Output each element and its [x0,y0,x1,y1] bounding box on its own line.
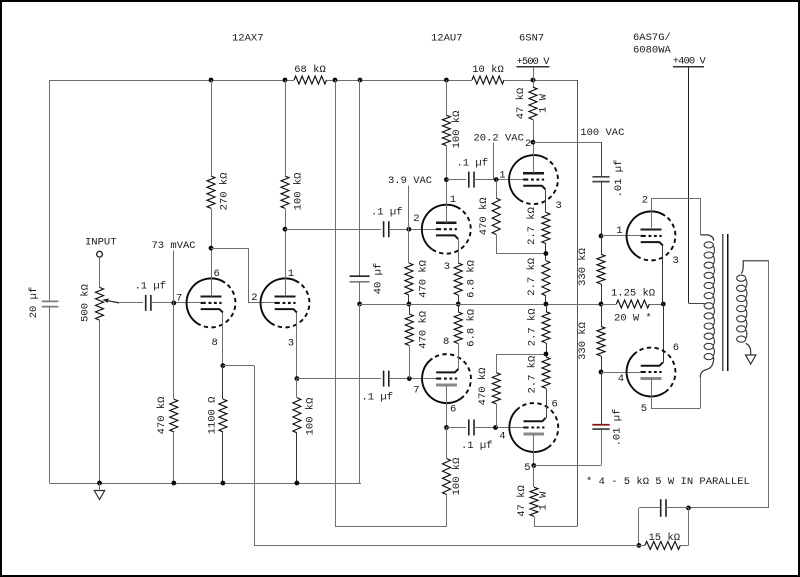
resistor 470 kΩ V2a grid leak [405,263,413,295]
wire 1.25k left lead [601,304,616,306]
label .01 µf upper [613,160,625,198]
node dot cathode divider V3a [544,251,549,256]
label 100 kΩ V2b [451,458,463,496]
wire 470k V3b top [496,354,546,373]
resistor 100 kΩ V2a top lead [446,80,448,115]
resistor 270 kΩ top lead [211,80,213,176]
wire plate V2b to 6SN7 cap [447,427,466,429]
wire mid rail [360,304,602,306]
capacitor .01 µf upper [592,177,609,182]
label 470 kΩ V1a [156,397,168,435]
wire plate V3b [533,434,535,466]
resistor 470 kΩ V3a grid leak [492,198,500,234]
svg-text:15 kΩ: 15 kΩ [649,532,681,544]
label 15 kΩ [649,532,681,544]
node dot grid V2b [407,376,412,381]
wire .01 cap to grid node 6AS7 upper [601,182,603,236]
wire cathode V1a to feedback [223,366,255,546]
label 6.8 kΩ V2b [465,309,477,347]
wire ground bus [50,483,361,485]
svg-text:.1 µf: .1 µf [457,157,489,169]
wire 470k V3b bottom lead [496,404,498,428]
pointer 73 mVAC [173,251,175,303]
pin 6 label V1a [214,268,220,280]
label 1 W upper [537,93,549,113]
resistor 100 kΩ V1b top lead [285,80,287,176]
svg-text:20.2 VAC: 20.2 VAC [474,132,524,144]
wire 1.25k right lead [649,304,663,306]
svg-text:73 mVAC: 73 mVAC [152,240,196,252]
resistor 470 kΩ V2b grid leak [405,314,413,346]
label 6SN7 [519,33,544,45]
svg-text:470 kΩ: 470 kΩ [417,260,429,298]
label 47 kΩ upper [515,88,527,120]
wire cap to grid V3a [474,179,523,181]
pin 3 label V2a [444,261,450,273]
node dot plate V2b [444,425,449,430]
node dot feedback cap right [686,506,691,511]
svg-text:8: 8 [443,336,449,348]
svg-text:4: 4 [499,431,505,443]
label 2.7 kΩ third [526,308,538,346]
node dot plate V3a [531,140,536,145]
pin 1 label V4a [616,225,622,237]
node dot feedback left [637,543,642,548]
node dot 2.7k rail [544,302,549,307]
label 100 kΩ V2a [451,111,463,149]
node dot 470k V2a rail [407,302,412,307]
label 20 µf [28,287,40,319]
resistor 47 kΩ 1W top lead [533,80,535,87]
resistor 470 kΩ V3b grid leak [492,373,500,404]
pointer 20.2 VAC [493,143,495,180]
wire 2.7k to junction [545,244,547,261]
svg-text:.01 µf: .01 µf [612,409,624,447]
svg-text:7: 7 [413,385,419,397]
capacitor .1 µf 6SN7 lower [469,420,474,436]
svg-text:2.7 kΩ: 2.7 kΩ [526,308,538,346]
svg-text:3.9 VAC: 3.9 VAC [388,175,432,187]
wire 40uf rail to bus [359,304,361,483]
resistor 330 kΩ upper [597,254,605,284]
svg-text:.1 µf: .1 µf [371,206,403,218]
resistor 6.8 kΩ V2b [454,312,462,344]
svg-text:6: 6 [450,404,456,416]
wire 6.8k V2b top lead [458,304,460,312]
label .1 µf input [135,281,167,293]
wire plate V4a to transformer [651,198,701,235]
wire grid V4a [601,235,641,237]
label .1 µf 6SN7 lower [461,440,493,452]
svg-text:5: 5 [641,403,647,415]
svg-text:2.7 kΩ: 2.7 kΩ [526,258,538,296]
pin 3 label V1b [288,338,294,350]
label 40 µf [372,263,384,295]
wire plate V1b [285,208,287,296]
capacitor .1 µf 6SN7 upper [469,172,474,188]
svg-text:20 µf: 20 µf [28,287,40,319]
wire cathode V1a [222,313,224,366]
label 20.2 VAC [474,132,524,144]
wire +500V feed right vertical [577,80,579,527]
svg-text:2.7 kΩ: 2.7 kΩ [526,207,538,245]
svg-text:6: 6 [552,399,558,411]
svg-text:3: 3 [444,261,450,273]
pin 1 label V2a [450,194,456,206]
wire x335 B+ vertical [335,80,337,527]
label 12AU7 [431,33,463,45]
resistor 470 kΩ grid V1a [170,399,178,432]
wire wiper to cap [119,302,143,304]
pin 3 label V3a [556,200,562,212]
resistor 100 kΩ cathode V1b [293,398,301,433]
svg-text:2: 2 [525,138,531,150]
label 100 kΩ cathode V1b [304,398,316,436]
resistor 1.25 kΩ 20 W [616,300,649,308]
resistor 330 kΩ lower [597,326,605,356]
label .1 µf 6SN7 upper [457,157,489,169]
svg-text:.1 µf: .1 µf [362,392,394,404]
capacitor .01 µf lower [592,425,609,429]
wire 470k V3a bottom [496,235,546,254]
label 6AS7G/6080WA [633,32,672,56]
pin 4 label V4b [618,373,624,385]
wire cathode V3a [545,189,547,212]
svg-text:8: 8 [212,337,218,349]
label INPUT [85,237,117,249]
wire left rail lower [49,307,51,483]
svg-text:100 kΩ: 100 kΩ [292,173,304,211]
label 47 kΩ lower [516,485,528,517]
svg-text:12AX7: 12AX7 [232,33,264,45]
transformer primary winding [700,235,714,378]
wire plate V1b to coupling cap [285,229,381,231]
wire grid V4b [601,372,641,374]
resistor 15 kΩ [645,541,680,549]
svg-text:12AU7: 12AU7 [431,33,463,45]
wire 470k V2a bottom lead [408,295,410,304]
node dot cathode divider V3b [544,352,549,357]
wire plate V3a to .01 cap [533,142,602,177]
node dot B+ 40uf [358,78,363,83]
wire left rail upper [49,80,51,301]
svg-text:* 4 - 5 kΩ 5 W IN PARALLEL: * 4 - 5 kΩ 5 W IN PARALLEL [586,476,750,488]
svg-text:4: 4 [618,373,624,385]
svg-text:7: 7 [176,293,182,305]
node dot grid V1a [171,301,176,306]
label .1 µf upper [371,206,403,218]
pin 5 label V3b [524,462,530,474]
wire 6.8k V2a bottom lead [458,295,460,304]
label 100 VAC [580,127,624,139]
wire 470k V2b bottom lead [409,346,411,379]
resistor 100 kΩ cathode V1b top lead [296,379,298,398]
wire cathode V2a [458,239,460,263]
wire 100k V2b return [335,495,447,527]
pin 6 label V2b [450,404,456,416]
svg-text:.1 µf: .1 µf [135,281,167,293]
wire 1100 ohm to bus [222,432,224,483]
label 330 kΩ upper [577,248,589,286]
wire cathode bus to V4b [663,304,665,362]
svg-text:2.7 kΩ: 2.7 kΩ [526,356,538,394]
svg-text:500 kΩ: 500 kΩ [79,284,91,322]
label 270 kΩ [218,173,230,211]
label 1.25 kΩ [611,287,655,299]
wire plate V4b to transformer [651,378,701,409]
wire 15k right lead [680,545,688,547]
label .01 µf lower [612,409,624,447]
svg-text:47 kΩ: 47 kΩ [515,88,527,120]
svg-text:2: 2 [251,292,257,304]
resistor 1100 Ω [219,399,227,432]
svg-text:270 kΩ: 270 kΩ [218,173,230,211]
pin 2 label V3a [525,138,531,150]
wire cap to grid pin7 [151,302,201,304]
svg-text:100 VAC: 100 VAC [580,127,624,139]
svg-text:3: 3 [288,338,294,350]
label 6.8 kΩ V2a [465,260,477,298]
capacitor .1 µf lower coupling [384,371,389,387]
svg-text:1: 1 [499,169,505,181]
wire plate V3b to 47k [533,466,535,488]
wire pot bottom to bus [99,320,101,483]
node dot 6.8k V2a rail [456,302,461,307]
pin 2 label V1b [251,292,257,304]
node dot bus 100k [295,481,300,486]
label 470 kΩ V2a [417,260,429,298]
node dot B+ x335 [333,78,338,83]
wire cap to grid V2a [389,229,436,231]
node dot grid feed V4a [599,234,604,239]
node dot bus 1100 [221,481,226,486]
wire cap to grid V2b [389,378,436,380]
node dot B+ 100k 12AU7 [444,78,449,83]
label 73 mVAC [152,240,196,252]
pin 7 label V2b [413,385,419,397]
label 330 kΩ lower [577,322,589,360]
label 2.7 kΩ second [526,258,538,296]
svg-text:470 kΩ: 470 kΩ [478,197,490,235]
pin 1 label V3a [499,169,505,181]
svg-text:1: 1 [616,225,622,237]
wire 470k to bus [173,432,175,483]
svg-text:470 kΩ: 470 kΩ [156,397,168,435]
wire 15k left lead [639,545,645,547]
svg-text:2: 2 [642,195,648,207]
resistor 47 kΩ 1W upper [529,87,537,119]
node dot plate V3b [531,463,536,468]
svg-text:3: 3 [556,200,562,212]
label 3.9 VAC [388,175,432,187]
wire plate V2b [446,385,448,428]
supply +500 V [517,56,551,80]
resistor 10 kΩ [472,76,504,84]
node dot plate V1b [283,227,288,232]
transformer secondary winding [737,261,769,355]
supply +400 V [673,56,707,68]
wire cathode V1b to coupling cap [297,378,381,380]
wire 40uf bottom to rail [359,282,361,304]
input terminal [97,251,103,257]
wire feedback resistor right leg [688,508,690,546]
svg-text:2: 2 [413,213,419,225]
svg-text:INPUT: INPUT [85,237,117,249]
pointer 3.9 VAC [408,186,410,230]
triode V1a 12AX7 section 1 [187,278,236,327]
triode V4b 6AS7 section 2 [627,348,676,397]
wire cathode V3b [546,388,548,418]
triode V2a 12AU7 section 1 [422,205,471,254]
resistor 6.8 kΩ V2a [454,263,462,295]
label 2.7 kΩ fourth [526,356,538,394]
svg-text:6: 6 [214,268,220,280]
wire B+ top rail left segment [50,80,294,82]
wire feedback cap left [639,508,661,546]
wire B+ top rail middle segment [327,80,473,82]
pin 8 label V2b [443,336,449,348]
label 2.7 kΩ first [526,207,538,245]
wire plate V1a [211,208,213,296]
label 12AX7 [232,33,264,45]
resistor 470 kΩ grid V1a top lead [173,303,175,399]
resistor 68 kΩ [294,76,327,84]
triode V1b 12AX7 section 2 [261,278,310,327]
svg-text:470 kΩ: 470 kΩ [477,367,489,405]
resistor 100 kΩ V1b plate [281,176,289,208]
svg-text:100 kΩ: 100 kΩ [304,398,316,436]
label 470 kΩ V3b [477,367,489,405]
potentiometer 500 kΩ [96,287,104,320]
node dot B+ 270k [209,78,214,83]
svg-text:.01 µf: .01 µf [613,160,625,198]
wire cathode 100k to bus [296,433,298,483]
node dot B+ 100k [283,78,288,83]
svg-text:1: 1 [288,268,294,280]
pin 6 label V3b [552,399,558,411]
node dot 330k junction [599,302,604,307]
svg-text:1 W: 1 W [537,93,549,113]
label 1100 Ω [206,397,218,435]
wire cathode V1b [296,313,298,379]
capacitor .1 µf upper coupling [384,221,389,237]
resistor 2.7 kΩ second [542,261,550,296]
svg-text:330 kΩ: 330 kΩ [577,248,589,286]
wire 2.7k third top [546,304,548,312]
pin 5 label V4b [641,403,647,415]
node dot grid V2a [407,227,412,232]
triode V4a 6AS7 section 1 [627,211,676,260]
triode V3a 6SN7 section 1 [509,155,558,204]
svg-text:40 µf: 40 µf [372,263,384,295]
svg-text:6.8 kΩ: 6.8 kΩ [465,260,477,298]
svg-text:1100 Ω: 1100 Ω [206,397,218,435]
wire feedback to cap node [688,507,769,509]
svg-text:470 kΩ: 470 kΩ [417,311,429,349]
wire 2.7k third bottom [546,343,548,357]
svg-text:100 kΩ: 100 kΩ [451,458,463,496]
pin 7 label V1a [176,293,182,305]
wire cap to grid V3b [474,427,523,429]
resistor 1100 Ω top lead [222,366,224,400]
resistor 100 kΩ V2b plate load [443,459,451,495]
node dot grid V3b [493,425,498,430]
node dot bus 470k [171,481,176,486]
node dot +500V junction [531,78,536,83]
node dot grid feed V4b [599,370,604,375]
pin 3 label V4a [673,255,679,267]
svg-text:47 kΩ: 47 kΩ [516,485,528,517]
wire plate V2b to 100k [446,428,448,459]
capacitor 40 µf [350,276,370,282]
resistor 100 kΩ V2a [442,115,450,145]
label 100 kΩ V1b [292,173,304,211]
capacitor feedback [661,499,666,517]
transformer core [723,234,728,371]
label 68 kΩ [294,64,326,76]
resistor 270 kΩ [207,176,215,208]
resistor 47 kΩ 1W lower [530,487,538,516]
pin 8 label V1a [212,337,218,349]
wire plate V2a [446,146,448,223]
label 1 W lower [537,491,549,511]
svg-text:20 W *: 20 W * [614,312,652,324]
label 500 kΩ [79,284,91,322]
svg-text:100 kΩ: 100 kΩ [451,111,463,149]
svg-text:6.8 kΩ: 6.8 kΩ [465,309,477,347]
label .1 µf lower [362,392,394,404]
pin 6 label V4b [673,342,679,354]
wire plate V2a to 6SN7 cap [446,179,466,181]
resistor 2.7 kΩ third [542,312,550,343]
svg-text:10 kΩ: 10 kΩ [472,64,504,76]
pin 2 label V2a [413,213,419,225]
wire input to pot [99,257,101,287]
label 10 kΩ [472,64,504,76]
wire plate V1a to grid V1b [211,248,275,303]
wire grid V4b node to cap [601,372,603,425]
triode V3b 6SN7 section 2 [509,403,558,452]
pot wiper arrow [102,298,119,303]
svg-text:3: 3 [673,255,679,267]
svg-text:1.25 kΩ: 1.25 kΩ [611,287,655,299]
pin 1 label V1b [288,268,294,280]
triode V2b 12AU7 section 2 [422,354,471,403]
node dot 40uf rail [357,302,362,307]
node dot cathode bus 6AS7 [661,302,666,307]
wire 470k V2a top lead [408,229,410,263]
pin 4 label V3b [499,431,505,443]
svg-text:6080WA: 6080WA [633,44,672,56]
label 470 kΩ V3a [478,197,490,235]
ground main [94,483,104,500]
node dot cathode V1b [295,376,300,381]
wire 330k lower leads [601,304,603,372]
node dot grid V3a [494,177,499,182]
note parallel resistors [586,476,750,488]
svg-text:68 kΩ: 68 kΩ [294,64,326,76]
wire 330k upper leads [601,236,603,304]
wire cathode V2b [458,344,460,369]
wire 47k lower return [534,516,577,526]
wire cathode V4a [662,246,664,304]
label 470 kΩ V2b [417,311,429,349]
svg-text:.1 µf: .1 µf [461,440,493,452]
wire feedback long [254,545,639,547]
ground secondary [746,355,756,364]
svg-text:6AS7G/: 6AS7G/ [633,32,671,44]
wire B+ top rail right segment [504,80,577,82]
